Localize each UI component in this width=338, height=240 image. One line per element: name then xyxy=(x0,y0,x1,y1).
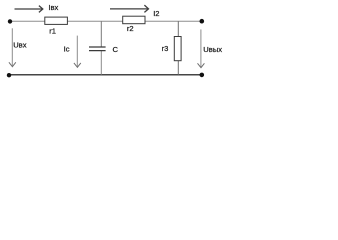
capacitor C xyxy=(89,47,106,51)
wire r3 lower stub xyxy=(177,61,179,75)
resistor r2 xyxy=(123,16,145,24)
arrow Uвх voltage xyxy=(9,28,16,66)
svg-text:r3: r3 xyxy=(162,44,169,53)
node top-left xyxy=(8,19,12,23)
arrow Iвх current xyxy=(15,6,43,13)
svg-text:I2: I2 xyxy=(153,9,159,18)
svg-text:Iвх: Iвх xyxy=(48,3,58,12)
wire capacitor upper stub xyxy=(100,21,102,46)
wire bottom rail xyxy=(9,74,202,76)
node top-right xyxy=(200,19,205,24)
svg-text:C: C xyxy=(113,45,119,54)
resistor r3 xyxy=(174,37,181,61)
node bottom-right xyxy=(200,73,205,78)
svg-text:Uвых: Uвых xyxy=(203,45,222,54)
wire top rail xyxy=(10,20,202,22)
arrow Uвых voltage xyxy=(198,29,205,67)
node bottom-left xyxy=(7,73,11,77)
svg-text:r1: r1 xyxy=(49,27,56,36)
arrow Iс current xyxy=(74,36,81,68)
wire capacitor lower stub xyxy=(100,51,102,75)
wire r3 upper stub xyxy=(177,21,179,36)
arrow I2 current xyxy=(110,5,149,12)
svg-text:r2: r2 xyxy=(127,24,134,33)
svg-text:Iс: Iс xyxy=(64,44,70,53)
svg-text:Uвх: Uвх xyxy=(13,40,27,49)
resistor r1 xyxy=(45,17,68,24)
